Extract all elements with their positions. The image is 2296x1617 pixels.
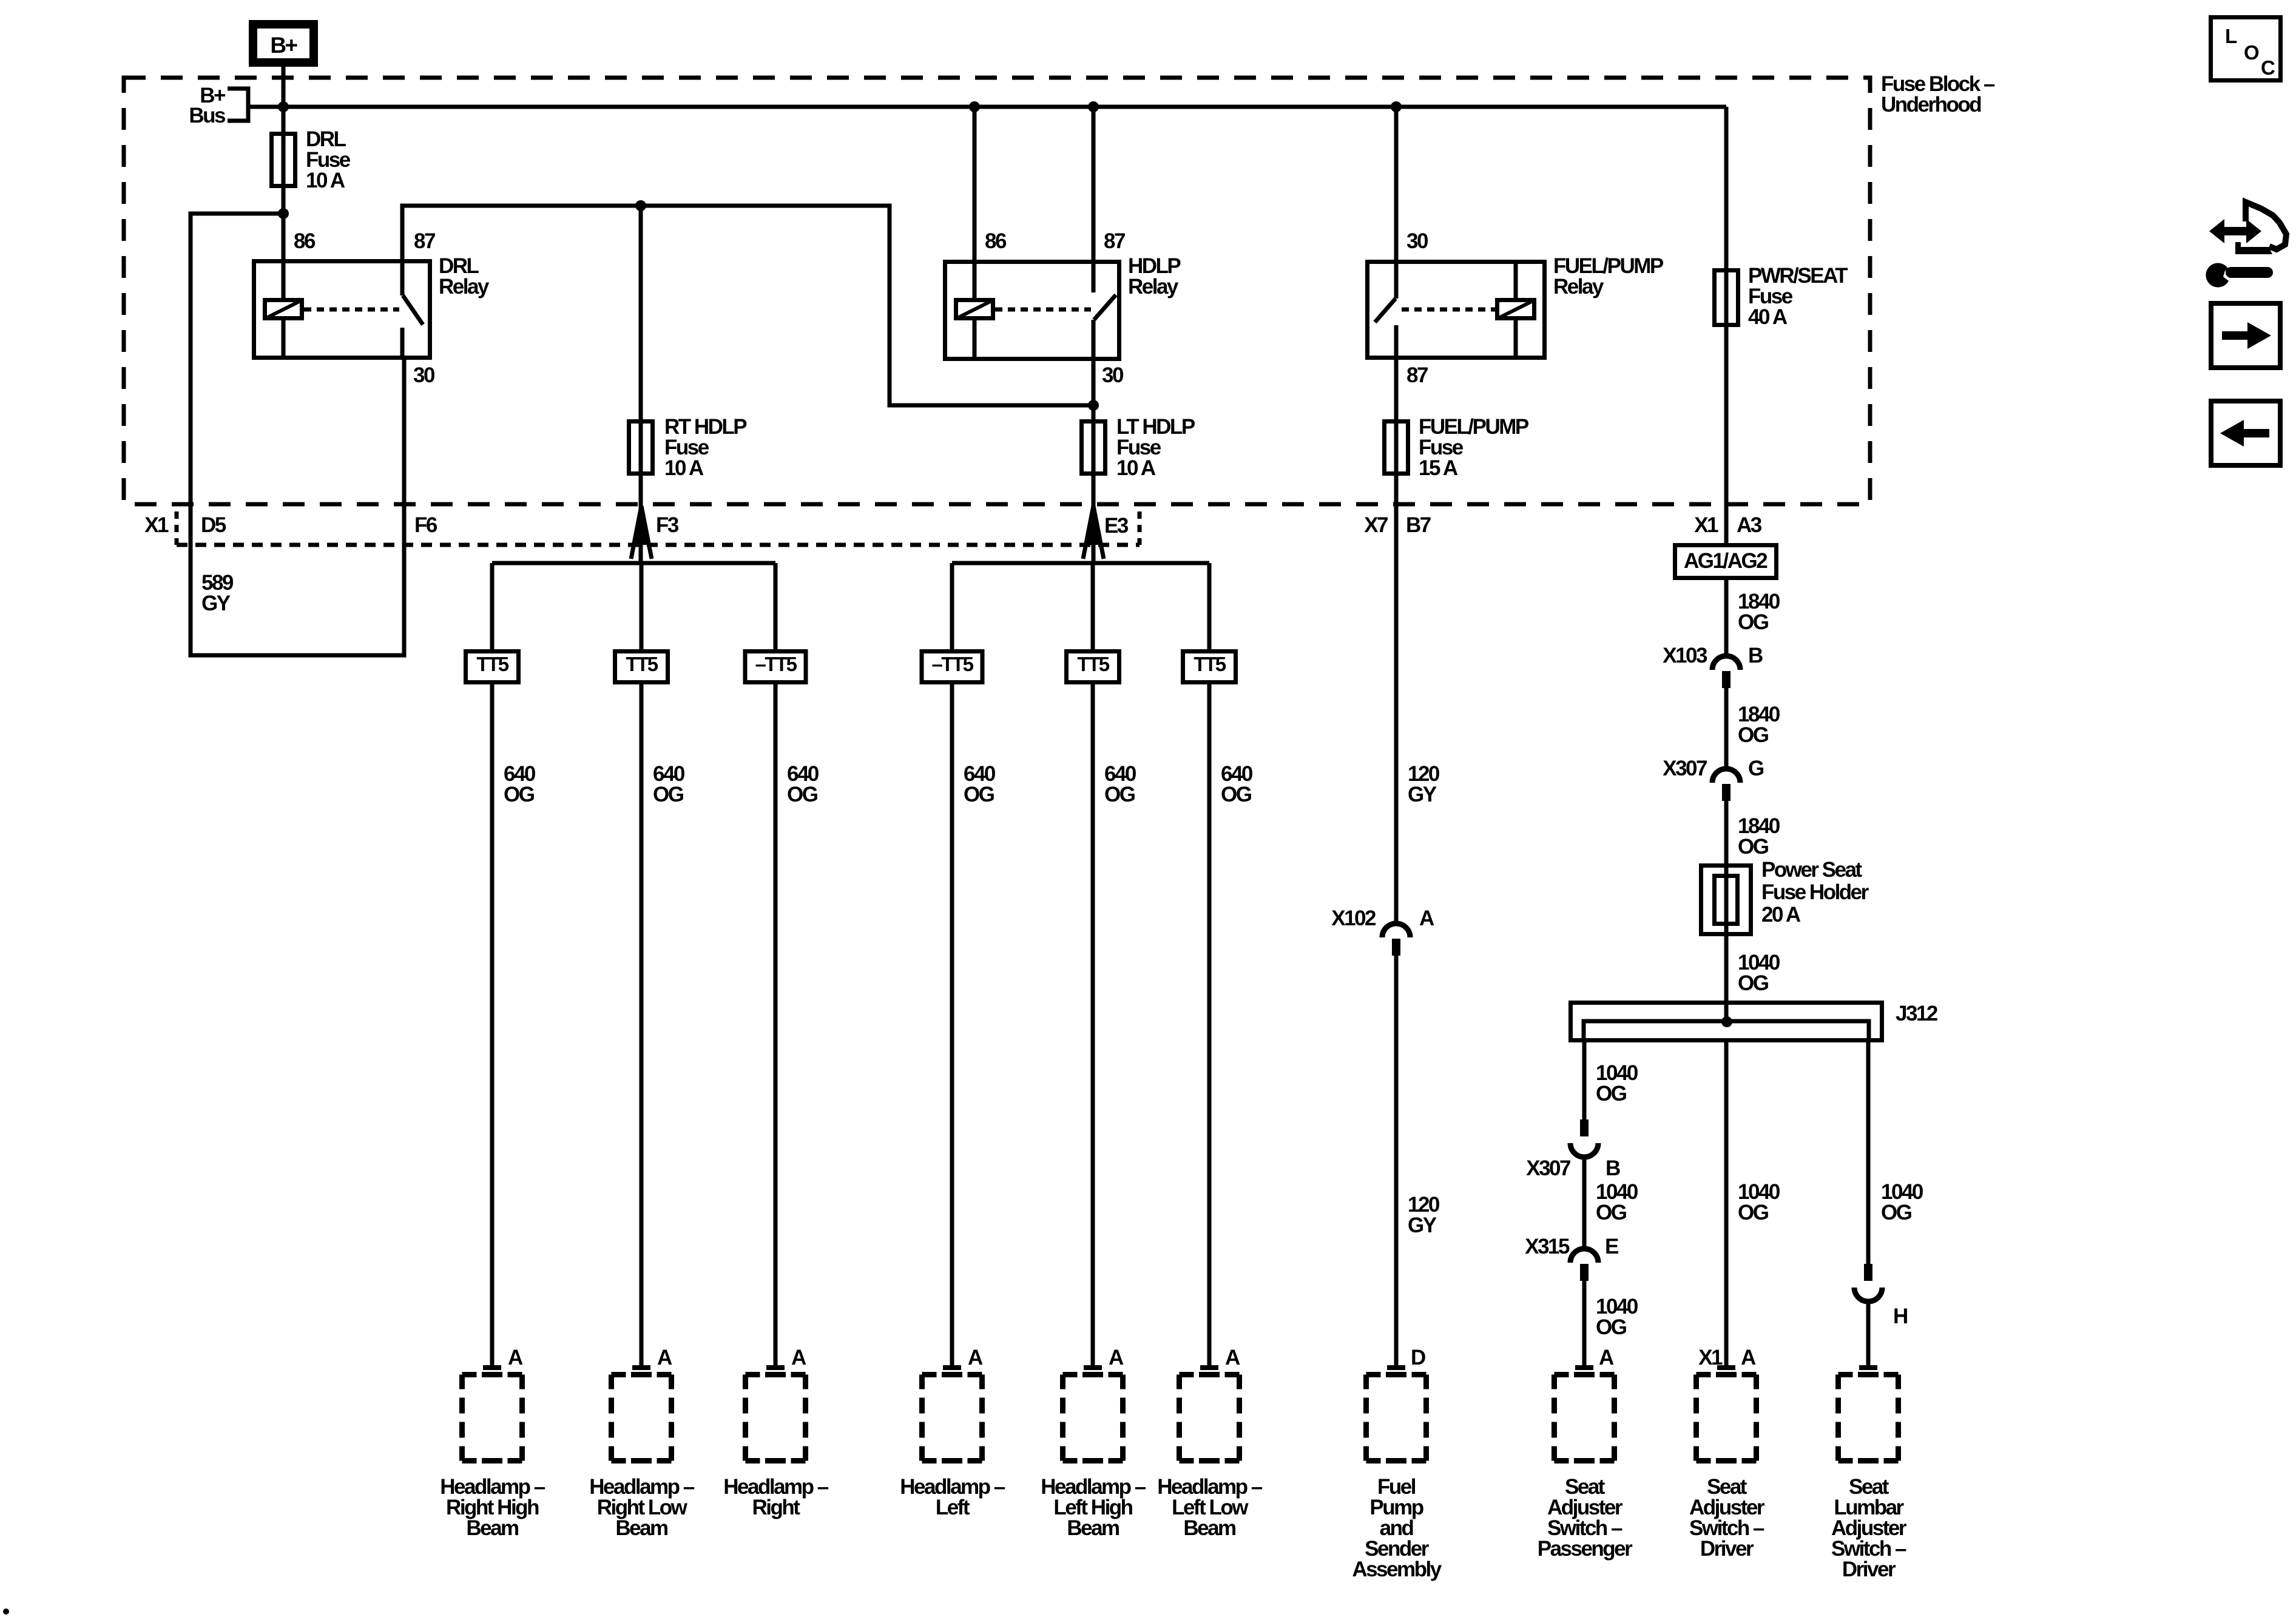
svg-text:TT5: TT5 <box>626 653 658 675</box>
svg-text:F6: F6 <box>414 513 437 537</box>
svg-text:X1: X1 <box>1694 513 1718 537</box>
svg-text:F3: F3 <box>656 513 679 537</box>
svg-text:Beam: Beam <box>1183 1516 1235 1540</box>
svg-text:X307: X307 <box>1663 757 1707 780</box>
svg-text:10 A: 10 A <box>306 169 345 192</box>
svg-text:Beam: Beam <box>615 1516 667 1540</box>
svg-text:A: A <box>1225 1346 1240 1369</box>
svg-text:GY: GY <box>1408 783 1437 806</box>
svg-text:X102: X102 <box>1331 906 1376 930</box>
svg-text:–TT5: –TT5 <box>755 653 797 675</box>
svg-text:X1: X1 <box>144 513 169 537</box>
svg-text:Relay: Relay <box>1128 275 1179 299</box>
svg-text:Driver: Driver <box>1842 1558 1896 1581</box>
svg-text:D: D <box>1411 1346 1425 1369</box>
svg-text:86: 86 <box>294 229 316 253</box>
svg-text:OG: OG <box>1596 1082 1627 1106</box>
svg-text:A: A <box>1109 1346 1124 1369</box>
svg-text:OG: OG <box>964 783 994 806</box>
svg-text:A: A <box>508 1346 523 1369</box>
svg-text:TT5: TT5 <box>476 653 508 675</box>
svg-text:B: B <box>1748 644 1763 667</box>
svg-text:TT5: TT5 <box>1194 653 1226 675</box>
svg-text:A: A <box>1599 1346 1614 1369</box>
svg-text:X307: X307 <box>1526 1156 1570 1180</box>
svg-text:D5: D5 <box>201 513 226 537</box>
svg-text:Underhood: Underhood <box>1881 93 1981 116</box>
svg-text:OG: OG <box>1596 1315 1627 1339</box>
svg-text:J312: J312 <box>1896 1002 1938 1025</box>
svg-text:OG: OG <box>504 783 535 806</box>
svg-text:OG: OG <box>1738 1201 1769 1224</box>
svg-text:OG: OG <box>1881 1201 1912 1224</box>
svg-text:B: B <box>1606 1156 1620 1180</box>
svg-text:OG: OG <box>787 783 818 806</box>
svg-text:Driver: Driver <box>1700 1537 1754 1561</box>
svg-text:Right: Right <box>752 1496 801 1519</box>
svg-text:OG: OG <box>1596 1201 1627 1224</box>
svg-text:Bus: Bus <box>189 104 226 127</box>
svg-text:E3: E3 <box>1104 514 1129 538</box>
svg-text:15 A: 15 A <box>1419 456 1458 480</box>
svg-text:10 A: 10 A <box>664 456 704 480</box>
svg-text:OG: OG <box>1738 610 1769 634</box>
svg-text:87: 87 <box>1104 229 1125 253</box>
svg-text:30: 30 <box>1406 229 1428 253</box>
svg-text:TT5: TT5 <box>1077 653 1109 675</box>
svg-text:H: H <box>1893 1305 1907 1328</box>
svg-text:GY: GY <box>201 592 231 615</box>
svg-text:Passenger: Passenger <box>1538 1537 1633 1561</box>
svg-text:Assembly: Assembly <box>1352 1558 1442 1581</box>
svg-text:B7: B7 <box>1406 513 1431 537</box>
svg-text:A: A <box>968 1346 983 1369</box>
svg-text:E: E <box>1605 1235 1618 1258</box>
svg-text:40 A: 40 A <box>1748 305 1788 329</box>
svg-text:L: L <box>2225 25 2237 47</box>
svg-text:Power Seat: Power Seat <box>1761 858 1863 882</box>
svg-text:A: A <box>791 1346 806 1369</box>
svg-text:AG1/AG2: AG1/AG2 <box>1684 549 1768 573</box>
svg-text:A: A <box>1741 1346 1756 1369</box>
svg-text:87: 87 <box>1406 363 1428 387</box>
svg-text:Fuse Holder: Fuse Holder <box>1761 880 1869 904</box>
svg-text:Beam: Beam <box>466 1516 518 1540</box>
svg-text:30: 30 <box>1102 363 1124 387</box>
svg-text:–TT5: –TT5 <box>931 653 973 675</box>
svg-text:C: C <box>2261 56 2275 79</box>
svg-text:OG: OG <box>653 783 684 806</box>
svg-text:87: 87 <box>414 229 435 253</box>
svg-text:X315: X315 <box>1525 1235 1570 1258</box>
svg-text:G: G <box>1748 757 1764 780</box>
svg-text:OG: OG <box>1738 971 1769 995</box>
svg-text:A: A <box>1419 906 1434 930</box>
svg-text:Beam: Beam <box>1067 1516 1119 1540</box>
svg-text:O: O <box>2244 41 2259 64</box>
svg-text:20 A: 20 A <box>1761 903 1801 927</box>
svg-text:86: 86 <box>985 229 1007 253</box>
svg-text:A: A <box>657 1346 672 1369</box>
svg-text:Left: Left <box>936 1496 970 1519</box>
svg-text:X7: X7 <box>1364 513 1388 537</box>
svg-text:X103: X103 <box>1663 644 1707 667</box>
svg-text:Relay: Relay <box>1553 275 1604 299</box>
svg-text:OG: OG <box>1221 783 1252 806</box>
svg-text:GY: GY <box>1408 1214 1437 1237</box>
svg-text:B+: B+ <box>270 33 297 58</box>
svg-text:OG: OG <box>1104 783 1135 806</box>
svg-text:30: 30 <box>413 363 435 387</box>
svg-text:OG: OG <box>1738 835 1769 859</box>
svg-text:OG: OG <box>1738 723 1769 747</box>
svg-text:10 A: 10 A <box>1116 456 1156 480</box>
svg-text:A3: A3 <box>1737 513 1762 537</box>
svg-text:Relay: Relay <box>439 275 490 299</box>
